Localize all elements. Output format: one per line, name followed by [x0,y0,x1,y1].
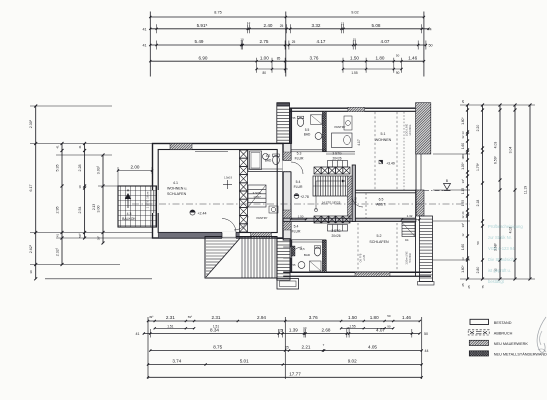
pantry label (small room below bad) [256,216,267,220]
stair label 14 STG 18/25 [322,201,341,205]
wall above room 5.6 [291,240,326,242]
svg-text:9.02: 9.02 [351,10,358,14]
svg-text:bestätigt: bestätigt [488,279,505,284]
svg-text:55: 55 [293,116,296,120]
svg-text:2.31: 2.31 [166,315,175,320]
svg-text:25: 25 [292,40,296,44]
bottom dim chain 4: 3.74 5.01 9.02 [147,359,423,366]
signature swoosh bottom right [537,317,546,352]
svg-text:1.60⁵: 1.60⁵ [461,117,465,125]
svg-text:FLUR: FLUR [292,230,301,234]
room 5.5 toilet [297,116,303,126]
door arcs central [291,162,363,258]
svg-text:ABBRUCH: ABBRUCH [494,332,513,336]
balcony dimension 2.00 [117,165,153,187]
central stair right wall hatched [348,176,353,216]
svg-text:1.80: 1.80 [370,315,379,320]
thin wall beside entrance stair (top) [290,108,292,143]
legend item 1 label BESTAND [494,321,512,325]
legend item 3 label NEU MAUERWERK [494,342,529,346]
svg-text:41: 41 [142,27,146,31]
svg-text:50: 50 [424,332,428,336]
section marker B right side [424,179,451,191]
svg-text:+2.44: +2.44 [197,212,206,216]
svg-text:ist geprüft u.: ist geprüft u. [488,268,511,273]
svg-text:3 STG: 3 STG [331,229,341,233]
svg-text:WOHNEN u.: WOHNEN u. [167,187,187,191]
svg-text:1.60: 1.60 [461,143,465,149]
svg-text:13: 13 [461,131,465,135]
right dim chain 4 (3.04 / 4.02) [509,104,517,281]
svg-text:6.90: 6.90 [199,55,208,60]
svg-text:2.32⁵: 2.32⁵ [56,247,60,256]
stair label 3 STG 20/26 (upper) [332,152,342,161]
room 5.4 FLUR label (upper) [294,180,303,189]
wall with X boxes right of room 4.1 [240,150,248,232]
svg-text:5.3: 5.3 [297,152,302,156]
bottom exterior stair strip [277,239,290,281]
svg-text:PANTRY: PANTRY [256,216,267,220]
svg-text:12: 12 [461,233,465,236]
svg-text:1.80: 1.80 [376,55,385,60]
svg-text:94⁵: 94⁵ [405,238,409,242]
svg-text:1.50: 1.50 [348,315,357,320]
svg-text:17.77: 17.77 [289,371,301,376]
door opening room 4.1 to terrace with arc [222,219,236,239]
svg-text:+2.78: +2.78 [363,254,366,261]
mini stair 3 STG lower [328,225,348,232]
svg-text:B: B [446,179,448,183]
svg-text:20²/26: 20²/26 [332,157,341,161]
svg-text:5.4: 5.4 [294,225,299,229]
terrace outline below left wing [205,237,277,279]
svg-text:1.60⁵: 1.60⁵ [461,265,465,273]
dim 1.50 lower flur [290,215,307,221]
svg-text:3.76: 3.76 [309,315,318,320]
svg-text:12: 12 [461,215,465,218]
svg-text:2.13: 2.13 [92,204,96,210]
tiny label 55 lower [293,263,296,267]
svg-text:90: 90 [387,324,391,328]
svg-text:5.1: 5.1 [381,132,386,136]
svg-text:5.08: 5.08 [372,23,381,28]
svg-text:2.31: 2.31 [212,315,221,320]
room 5.4 FLUR label (lower) [292,225,301,234]
svg-text:4.05: 4.05 [368,345,377,350]
legend item 3 box (NEU MAUERWERK hatched) [469,340,488,345]
room 4.2 label [265,154,272,163]
svg-text:30: 30 [29,270,33,274]
svg-text:5.4: 5.4 [296,180,301,184]
stair label 3 STG 20/26 (lower) [331,229,341,238]
svg-text:4.3: 4.3 [127,212,132,216]
section arrow A in balcony [125,189,131,209]
right dim bottom labels 25 / 75 [467,285,485,289]
svg-text:6.59⁵: 6.59⁵ [494,155,498,164]
svg-text:80: 80 [263,71,267,75]
svg-text:2.18: 2.18 [476,200,480,207]
bottom dim chain 2: 41 8.34 25 1.39 10 2.68 15 4.07 50 [136,326,429,338]
svg-text:10: 10 [78,185,82,189]
svg-text:2.75: 2.75 [260,39,269,44]
terrace decking hatch [206,237,275,278]
svg-text:3.74: 3.74 [172,359,181,364]
svg-text:41: 41 [142,44,146,48]
rotated notes right wall (LOG-LINE) [405,124,413,136]
svg-text:25: 25 [467,285,471,289]
balcony 4.3 grid [118,186,157,227]
svg-text:94⁵: 94⁵ [461,222,465,227]
room 5.6 sink [298,262,305,269]
top dimension chain line 3: 41 5.49 10 2.75 25 4.17 15 4.07 50 [142,37,432,49]
room 5.5 sink [315,133,322,140]
svg-text:1.46: 1.46 [402,315,411,320]
svg-text:25: 25 [279,329,283,333]
svg-text:NEU METALLSTÄNDERWAND: NEU METALLSTÄNDERWAND [494,353,547,357]
top dimension chain line 4: 6.90 1.00 85 3.76 1.50 1.80 50 1.46 [149,54,425,73]
svg-text:25: 25 [461,100,465,104]
door arc room 4.1 to flur [234,216,248,230]
svg-text:39⁵: 39⁵ [149,315,154,319]
svg-text:2.54: 2.54 [78,207,82,214]
svg-text:3.76: 3.76 [310,55,319,60]
svg-text:38,5: 38,5 [299,247,305,251]
svg-text:8.75: 8.75 [213,345,222,350]
svg-text:1.46: 1.46 [408,55,417,60]
svg-text:59⁵: 59⁵ [188,315,193,319]
svg-text:9.02: 9.02 [348,359,357,364]
svg-text:41: 41 [136,332,140,336]
room 5.5 label [304,128,311,137]
bottom dim chain 5: 17.77 [147,371,423,378]
right wing vertical wall x352 [352,165,355,222]
svg-text:85: 85 [277,56,281,60]
room 6.5 ABST label [376,198,385,207]
wall below pantry [326,152,355,154]
dimension extension verticals (top block) [150,12,424,77]
right wing vertical wall x322-326 upper (metallstaender) [322,111,326,151]
right dim extension lines [433,105,535,279]
svg-text:55: 55 [293,263,296,267]
bottom dim extension verticals [148,317,422,379]
legend item 2 label ABBRUCH [494,332,513,336]
svg-text:2.42: 2.42 [354,197,358,203]
left dim chain 2 (41 / 5.35 / 2.95 / 41 / 2.32) [56,142,64,266]
room 5.2 dashed lines [358,223,397,270]
svg-text:50: 50 [396,54,400,58]
svg-text:1.51: 1.51 [167,324,173,328]
room 5.6 toilet [314,246,320,256]
svg-text:8.34: 8.34 [210,328,219,333]
right wing right wall upper hatched [416,103,431,154]
level marker +2.44 [190,210,207,216]
level marker +2.78 [294,194,309,199]
left dim chain 4 (3.03 / 2.13 3.00 / 30) [92,154,105,245]
svg-text:1.15: 1.15 [461,188,465,194]
svg-text:1.50: 1.50 [298,215,304,219]
svg-text:5.35: 5.35 [56,165,60,172]
svg-text:NEU MAUERWERK: NEU MAUERWERK [494,342,529,346]
pantry fixtures [344,116,352,130]
svg-text:FLUR: FLUR [295,157,304,161]
wall below room 5.5 [291,150,326,152]
svg-text:ABST.: ABST. [376,203,385,207]
top dimension chain line 1: 8.75 / 9.02 [149,10,425,18]
small wall ticks lower bad [291,246,295,256]
svg-text:1.50: 1.50 [350,55,359,60]
svg-text:8.75: 8.75 [214,10,221,14]
svg-text:6.5: 6.5 [379,198,384,202]
rotated note along left wall (1 STG 18cm) [146,191,150,208]
svg-text:1.39: 1.39 [289,328,298,333]
svg-text:10: 10 [240,37,244,41]
room 5.5 shower [311,115,323,125]
right wing horizontal wall y218-221 [283,218,416,221]
right dim chain 2 (2.20 / 1.79 / 2.18 / 50 / 2.80) [476,104,484,281]
left dim chain 3 (41 / 2.28 / 10 / 2.54 / 50) [78,142,86,240]
rotated dim 2.42 near stair wall [354,197,358,203]
centre axis dashed line [132,203,470,205]
svg-text:25: 25 [461,283,465,287]
mini stair 3 STG upper [328,161,348,168]
svg-text:2.40: 2.40 [264,23,273,28]
pantry room counter [332,125,353,148]
svg-text:4.17: 4.17 [317,39,326,44]
svg-text:WOHNEN: WOHNEN [375,138,392,142]
svg-text:BESTAND: BESTAND [494,321,512,325]
svg-text:41: 41 [78,145,82,149]
top dimension sub line: 80 / 1.55 / 90 [256,68,403,75]
room 5.1 level marker +3.49 [379,160,395,165]
central staircase upper X-wall row [314,167,350,174]
svg-text:4.1: 4.1 [173,181,178,185]
room 4.2 BAD walls [248,150,283,172]
svg-text:H=0.90m: H=0.90m [408,125,412,136]
thin wall beside lower stair [290,240,292,272]
rotated notes room 5.2 left [360,253,366,262]
svg-text:2.30⁵: 2.30⁵ [29,119,33,128]
legend item 4 label NEU METALLSTAENDERWAND [494,353,547,357]
svg-text:1.5x0.9: 1.5x0.9 [224,177,233,180]
svg-text:zur Statik Nr.: zur Statik Nr. [488,235,512,240]
svg-text:24: 24 [461,211,465,214]
svg-text:5.91⁵: 5.91⁵ [197,23,208,28]
svg-text:1.00: 1.00 [260,55,269,60]
stair 3 STG 17/27 (middle-left) [248,185,266,207]
legend item 1 box (BESTAND) [470,319,489,324]
svg-text:2.62⁵: 2.62⁵ [29,244,33,253]
svg-text:BALKON: BALKON [122,217,136,221]
entrance exterior stair (top of right wing) [277,103,290,144]
approval stamp (teal) [488,224,523,284]
left dim extension lines (horizontal) [30,106,152,279]
svg-text:94⁵: 94⁵ [461,178,465,183]
svg-text:4.17: 4.17 [357,139,361,145]
tiny label 94-5 near small stair [405,238,409,242]
right wing right wall lower hatched segment [416,190,425,216]
rotated notes room 5.2 right (links/unten) [406,251,413,265]
right wing top wall [290,107,417,112]
right wing bottom wall [283,272,431,276]
right wing horizontal wall y190 (6.5 Abst) [352,190,416,193]
left wing balcony door opening [152,190,159,213]
svg-text:90: 90 [396,71,400,75]
svg-text:50⁵: 50⁵ [78,232,82,237]
right wing vertical wall x322-326 lower (metallstaender) [322,240,326,272]
svg-text:41: 41 [56,234,60,238]
svg-text:5.2: 5.2 [377,234,382,238]
svg-text:4.03: 4.03 [494,142,498,149]
left wing top wall window line [195,151,228,153]
svg-text:VGB 4-123 94: VGB 4-123 94 [488,246,515,251]
svg-text:3.32: 3.32 [312,23,321,28]
svg-text:4.07: 4.07 [376,328,385,333]
svg-text:2.94: 2.94 [257,315,266,320]
svg-text:50: 50 [428,44,432,48]
svg-text:1.55: 1.55 [349,324,355,328]
svg-text:50: 50 [476,241,480,245]
legend item 2 box (ABBRUCH dashed) [468,330,489,335]
right wing right wall middle thin (loggia) [416,154,422,276]
svg-text:3.00: 3.00 [97,206,101,213]
legend item 4 box (NEU METALLSTAENDERWAND cross-hatched) [469,351,488,356]
terrace diagonal [206,237,241,277]
right dim chain 1 (small segments) [461,100,469,287]
right side exterior stair (descends along right wall) [418,216,435,285]
room 5.1 dashed roof lines [375,112,404,190]
svg-text:50: 50 [387,314,391,318]
svg-text:1.60: 1.60 [461,244,465,250]
svg-text:+2.78: +2.78 [300,195,309,199]
svg-text:2.21: 2.21 [302,345,311,350]
svg-text:5.5: 5.5 [305,128,310,132]
room 4.2 toilet [273,154,280,165]
svg-text:H=0.90m: H=0.90m [409,253,412,263]
svg-text:BAD: BAD [304,253,311,257]
small fixtures middle (sink) [269,206,278,213]
svg-text:20²/26: 20²/26 [331,234,340,238]
svg-text:3.04: 3.04 [509,147,513,154]
rotated dim 4.17 in room 5.1 [357,139,361,145]
svg-text:10: 10 [303,326,307,330]
window cross mark in room 4.1 [223,177,233,190]
right dim chain 3 (4.03 / 6.59 / 3.68) [494,104,502,281]
svg-text:3 STG: 3 STG [332,152,342,156]
room 4.2 sink [263,154,269,160]
svg-text:1.09⁵: 1.09⁵ [461,162,465,170]
svg-text:2.20: 2.20 [476,125,480,132]
svg-text:4.07: 4.07 [381,39,390,44]
central staircase treads [313,176,348,212]
svg-text:4.2: 4.2 [266,154,271,158]
svg-text:SCHLAFEN: SCHLAFEN [167,192,187,196]
svg-text:1 STG 18cm: 1 STG 18cm [146,191,150,208]
left wing bottom wall dark band [158,233,271,239]
svg-text:+3.49: +3.49 [386,162,395,166]
svg-text:1.32: 1.32 [407,214,413,218]
bottom dim chain 3: 8.75 25 2.21 7 4.05 44 [149,343,428,353]
room 5.3 FLUR label [295,152,304,161]
svg-text:1.55: 1.55 [351,71,357,75]
small stair room 5.2 corner [402,223,415,237]
svg-text:2.00: 2.00 [131,165,140,170]
svg-text:SCHLAFEN: SCHLAFEN [369,240,389,244]
bottom dim chain 1: 39 2.31 59 2.31 2.94 3.76 1.50 1.80 50 1.46 [147,314,421,330]
svg-text:2.95: 2.95 [56,207,60,214]
svg-text:1.79⁵: 1.79⁵ [476,162,480,171]
svg-text:44: 44 [425,349,429,353]
svg-text:44: 44 [427,27,431,31]
svg-text:Prüfbescheinigung: Prüfbescheinigung [488,224,523,229]
top dimension chain line 2: 41 5.91 12 2.40 25 3.32 13 5.08 44 [142,21,431,33]
svg-text:2.28: 2.28 [78,165,82,172]
svg-text:Die Standsich.: Die Standsich. [488,257,515,262]
dashed line room 6.5 [365,193,367,218]
left wing exterior wall outline [153,144,284,239]
middle section dividing wall (x283-291) [283,144,291,241]
room 5.6 labels [299,247,310,257]
central staircase lower X-wall row [314,216,350,223]
svg-text:7: 7 [323,343,325,347]
svg-text:11.19: 11.19 [524,186,528,194]
tiny label 55 [293,116,296,120]
svg-text:5.49: 5.49 [195,39,204,44]
svg-text:75: 75 [481,285,485,289]
svg-text:17/27: 17/27 [253,195,261,199]
left dim chain 1 (2.30 / 6.17 / 2.62 / 30) [29,105,37,281]
dim 1.32 above small stair [401,214,421,220]
door gaps in dividing wall [283,161,292,259]
room 5.6 shower square [310,261,322,271]
svg-text:41: 41 [56,145,60,149]
room 5.1 WOHNEN label [375,132,392,142]
svg-text:25: 25 [280,24,284,28]
svg-text:13: 13 [461,257,465,261]
room 4.2 bathtub [250,151,262,170]
svg-text:BAD: BAD [265,159,272,163]
svg-text:1.55: 1.55 [461,200,465,206]
svg-text:3.03⁵: 3.03⁵ [97,165,101,174]
svg-text:LOG-LINE: LOG-LINE [405,124,409,136]
svg-text:25: 25 [285,346,289,350]
right dim chain 5 (11.19) [524,104,532,281]
bottom stair lower platform [277,279,299,290]
left wing top wall hatched segment (neu mauerwerk) [170,144,192,150]
room 5.2 SCHLAFEN label [369,234,389,244]
svg-text:BAD: BAD [304,133,311,137]
svg-text:FLUR: FLUR [294,185,303,189]
svg-text:5.01: 5.01 [240,359,249,364]
svg-text:2.68: 2.68 [322,328,331,333]
svg-text:6.17: 6.17 [29,185,33,192]
room label 4.1 WOHNEN u. SCHLAFEN [167,181,187,196]
svg-text:30⁵: 30⁵ [97,235,101,240]
balcony label 4.3 BALKON [122,212,136,221]
svg-text:2.80: 2.80 [476,267,480,274]
